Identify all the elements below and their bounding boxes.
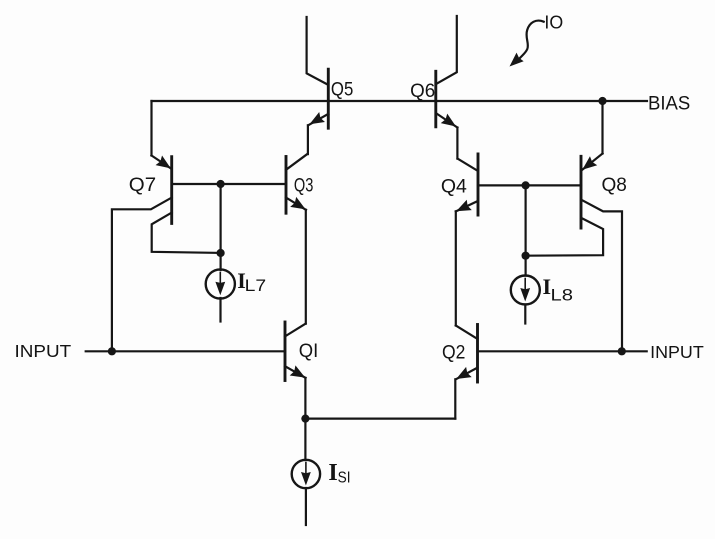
svg-text:Q2: Q2 (442, 343, 465, 364)
svg-text:BIAS: BIAS (648, 93, 690, 114)
transistor Q5 (307, 69, 329, 129)
wire: BIAS left corner drop to Q7 emitter (150, 101, 152, 156)
wire: Q5 emitter to Q3 collector (307, 125, 309, 154)
svg-text:I: I (328, 460, 337, 486)
node: IL8 top dot (522, 252, 530, 260)
current source IL7 (206, 184, 235, 322)
current source IL8 (511, 185, 540, 323)
node: BIAS junction dot (598, 97, 606, 105)
node: base line left dot (217, 180, 225, 188)
svg-text:INPUT: INPUT (650, 342, 704, 362)
node: tail rail dot (301, 415, 309, 423)
svg-text:Q6: Q6 (410, 81, 435, 102)
node: left INPUT dot (108, 347, 116, 355)
wire: BIAS rail (152, 100, 648, 102)
wire: Q6 collector top vertical (436, 16, 457, 84)
transistor Q3 (286, 154, 309, 214)
transistor Q2 (453, 325, 477, 385)
wire: Q6 emitter to Q4 collector (456, 128, 458, 159)
wire: right INPUT line (478, 350, 647, 352)
wire: BIAS drop to Q8 emitter (601, 101, 603, 154)
transistor Q1 (285, 322, 308, 383)
wire: tail rail (305, 418, 455, 420)
svg-text:Q7: Q7 (129, 175, 156, 196)
wire: Q3 emitter to Q1 collector (305, 210, 307, 324)
svg-text:Q5: Q5 (331, 80, 353, 101)
wire: base line Q7-Q3 (172, 183, 286, 185)
wire: left INPUT line (86, 350, 285, 352)
wire: Q4 emitter to Q2 collector (455, 211, 457, 325)
wire: Q2 emitter down to tail rail (454, 379, 456, 418)
transistor Q8 (526, 154, 622, 352)
svg-text:IO: IO (544, 12, 563, 33)
current source IS1 (292, 419, 320, 525)
node: base line right dot (522, 181, 530, 189)
svg-text:QI: QI (299, 341, 319, 362)
node: IL7 top dot (217, 249, 225, 257)
svg-text:L7: L7 (245, 276, 267, 295)
transistor Q4 (454, 154, 478, 217)
node: right INPUT dot (618, 347, 626, 355)
transistor Q6 (436, 71, 459, 131)
svg-text:Q4: Q4 (441, 177, 467, 198)
svg-text:Q8: Q8 (602, 175, 627, 196)
transistor Q7 (112, 155, 221, 351)
svg-text:L8: L8 (551, 286, 574, 305)
wire: Q1 emitter down to tail node (304, 378, 306, 419)
wire: Q5 collector top vertical (307, 17, 328, 85)
leader arrow for reference numeral 10 (506, 21, 544, 71)
wire: base line Q4-Q8 (478, 184, 581, 186)
svg-text:Q3: Q3 (294, 176, 314, 197)
svg-text:INPUT: INPUT (15, 341, 72, 361)
svg-text:SI: SI (338, 470, 351, 487)
